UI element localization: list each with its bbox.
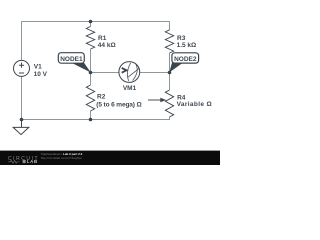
node NODE1 callout tail <box>72 63 91 73</box>
R4 wiper arrow <box>148 99 161 101</box>
junction dot R2 bottom on rail <box>89 118 93 122</box>
voltage source V1 <box>14 60 30 76</box>
voltmeter VM1 <box>119 62 140 83</box>
node NODE2 callout tail <box>169 63 182 73</box>
svg-text:1.5 kΩ: 1.5 kΩ <box>177 42 197 49</box>
svg-text:http://circuitlab.com/c/74wg5p: http://circuitlab.com/c/74wg5pc <box>41 156 83 160</box>
wire: bottom rail up to R4 bottom <box>22 117 170 120</box>
svg-text:LAB: LAB <box>27 159 38 164</box>
svg-text:R2: R2 <box>97 94 106 101</box>
node NODE1 callout box <box>58 53 84 64</box>
svg-text:10 V: 10 V <box>34 71 48 78</box>
junction dot ground <box>20 118 24 122</box>
wire: voltmeter right to NODE2 junction <box>140 72 170 74</box>
svg-text:Variable Ω: Variable Ω <box>177 101 212 108</box>
svg-text:V1: V1 <box>34 64 42 71</box>
wire: R2 bottom to bottom rail <box>90 111 92 120</box>
ground <box>21 120 23 128</box>
svg-text:NODE2: NODE2 <box>174 56 197 63</box>
wire: V1 bottom to ground junction <box>21 76 23 119</box>
svg-text:44 kΩ: 44 kΩ <box>98 42 116 49</box>
wire: NODE2 junction to R4 top <box>169 73 171 91</box>
wire: NODE1 junction to voltmeter left <box>91 72 120 74</box>
wire: R1 bottom to NODE1 junction <box>90 49 92 73</box>
resistor R4 (variable) <box>165 90 173 117</box>
wire: NODE1 junction down to R2 top <box>90 73 92 86</box>
svg-text:NODE1: NODE1 <box>60 56 83 63</box>
junction dot NODE1 <box>89 71 93 75</box>
wire: R3 bottom to NODE2 junction <box>169 53 171 73</box>
svg-text:VM1: VM1 <box>123 85 137 92</box>
resistor R1 <box>86 26 94 49</box>
resistor R3 <box>165 30 173 53</box>
resistor R2 <box>86 85 94 111</box>
junction dot at R1 top on rail <box>89 20 93 24</box>
svg-text:R1: R1 <box>98 35 107 42</box>
node NODE2 callout box <box>172 53 199 63</box>
svg-text:R3: R3 <box>177 35 186 42</box>
footer bar <box>0 151 220 165</box>
junction dot NODE2 <box>168 71 172 75</box>
svg-text:(5 to 6 mega) Ω: (5 to 6 mega) Ω <box>96 101 141 108</box>
wire: left rail + top rail + right drop to R3 <box>22 22 170 61</box>
wire: R1 top lead from rail <box>90 22 92 27</box>
